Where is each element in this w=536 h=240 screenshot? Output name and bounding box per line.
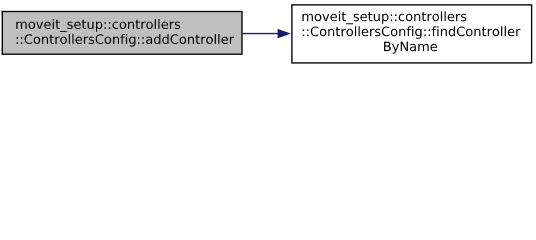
label line 2 of caller node: ::ControllersConfig::addController (17, 34, 234, 47)
edge arrowhead (278, 29, 291, 38)
label line 2 of callee node: ::ControllersConfig::findController (303, 26, 521, 39)
label line 3 of callee node: ByName (centered) (384, 42, 437, 54)
label line 1 of callee node: moveit_setup::controllers (303, 11, 467, 24)
node box: moveit_setup::controllers::ControllersConfig::findControllerByName (callee, white fill) (292, 5, 532, 63)
edge wire: call arrow shaft (midnightblue) (243, 33, 279, 35)
label line 1 of caller node: moveit_setup::controllers (16, 19, 180, 32)
node box: moveit_setup::controllers::ControllersConfig::addController (caller, grey fill) (2, 12, 242, 55)
